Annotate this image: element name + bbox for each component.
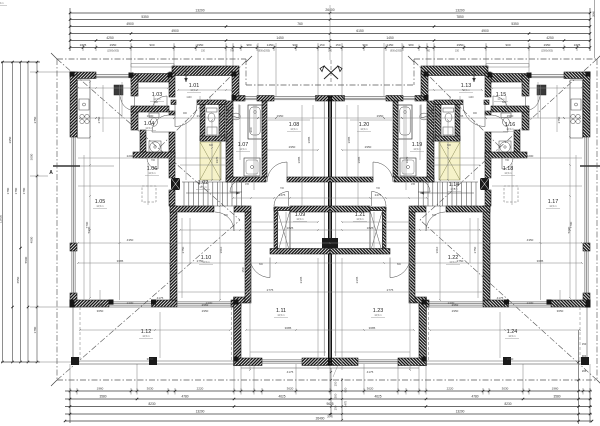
- svg-text:3030: 3030: [147, 387, 154, 391]
- bathtub 1.07: [248, 105, 262, 139]
- svg-text:3685: 3685: [297, 156, 301, 163]
- svg-text:1450: 1450: [387, 43, 394, 47]
- svg-text:150: 150: [582, 342, 587, 346]
- svg-text:900: 900: [183, 112, 188, 115]
- svg-text:1.14: 1.14: [449, 182, 460, 188]
- svg-text:1.23: 1.23: [373, 308, 384, 314]
- svg-text:3000: 3000: [30, 153, 34, 160]
- svg-text:2475: 2475: [375, 193, 382, 197]
- svg-text:980: 980: [408, 43, 413, 47]
- tall cabinet by window: [114, 85, 123, 95]
- svg-text:12,5 m: 12,5 m: [296, 218, 303, 221]
- svg-text:760: 760: [426, 50, 431, 53]
- svg-text:800: 800: [154, 101, 159, 104]
- svg-text:1.21: 1.21: [355, 212, 366, 218]
- svg-text:4250: 4250: [106, 36, 114, 40]
- svg-text:4625: 4625: [278, 395, 285, 399]
- bottom wall segments: [70, 300, 109, 307]
- svg-text:3685: 3685: [369, 326, 376, 330]
- svg-text:1960: 1960: [97, 387, 104, 391]
- svg-text:4780: 4780: [471, 395, 478, 399]
- wall 1.05/1.10: [170, 206, 177, 300]
- svg-text:2400: 2400: [127, 301, 134, 305]
- svg-text:12,5 m: 12,5 m: [145, 127, 152, 130]
- svg-text:1780: 1780: [6, 187, 10, 194]
- section marker A: [53, 165, 80, 167]
- svg-text:155: 155: [245, 183, 250, 186]
- svg-text:800: 800: [224, 214, 229, 217]
- svg-text:3650: 3650: [557, 309, 564, 313]
- mid front wall piers: [239, 96, 245, 102]
- svg-text:3685: 3685: [347, 136, 351, 143]
- outer wall: top entry segment: [172, 66, 239, 76]
- svg-text:2200: 2200: [527, 154, 534, 158]
- svg-text:150: 150: [201, 50, 206, 53]
- toilet 1.07: [228, 110, 232, 123]
- svg-text:3685: 3685: [117, 259, 124, 263]
- svg-text:12,5 m: 12,5 m: [96, 205, 103, 208]
- svg-text:1500: 1500: [147, 114, 154, 118]
- center bottom dim cluster: [330, 368, 332, 416]
- svg-text:300: 300: [334, 393, 338, 398]
- roof hip lines: [57, 59, 240, 220]
- svg-text:12,5 m: 12,5 m: [202, 261, 209, 264]
- wc2 room walls: [200, 105, 205, 142]
- svg-text:13200: 13200: [455, 9, 464, 13]
- svg-text:12,5 m: 12,5 m: [449, 261, 456, 264]
- svg-text:2775: 2775: [267, 288, 274, 292]
- svg-text:150: 150: [334, 381, 338, 386]
- svg-text:150: 150: [455, 50, 460, 53]
- svg-text:900: 900: [249, 127, 253, 132]
- svg-text:12,5 m: 12,5 m: [0, 2, 4, 5]
- svg-text:1.09: 1.09: [295, 212, 306, 218]
- svg-text:5350: 5350: [511, 22, 519, 26]
- wing bottom wall: [234, 358, 262, 366]
- svg-text:1.20: 1.20: [359, 122, 370, 128]
- svg-text:1475: 1475: [344, 400, 348, 407]
- svg-text:9625: 9625: [326, 402, 333, 406]
- svg-text:1.08: 1.08: [289, 122, 300, 128]
- svg-text:2950: 2950: [452, 309, 459, 313]
- svg-text:12,5 m: 12,5 m: [356, 218, 363, 221]
- svg-text:700: 700: [230, 107, 235, 110]
- wc left wall: [140, 130, 146, 158]
- svg-text:3620: 3620: [367, 387, 374, 391]
- svg-text:295: 295: [582, 369, 587, 373]
- svg-text:7700: 7700: [85, 221, 89, 228]
- svg-text:11830: 11830: [0, 215, 3, 223]
- svg-text:2950: 2950: [289, 145, 296, 149]
- washer: [149, 141, 161, 153]
- svg-text:1.18: 1.18: [503, 166, 514, 172]
- svg-text:700: 700: [376, 187, 381, 190]
- svg-text:1.02: 1.02: [198, 180, 209, 186]
- svg-text:800: 800: [259, 263, 264, 266]
- svg-text:3580: 3580: [553, 395, 560, 399]
- svg-text:4900: 4900: [126, 22, 134, 26]
- svg-text:1.15: 1.15: [496, 92, 507, 98]
- svg-text:12,5 m: 12,5 m: [549, 205, 556, 208]
- svg-text:1100: 1100: [468, 96, 474, 99]
- svg-text:2200: 2200: [127, 154, 134, 158]
- svg-text:A: A: [49, 170, 53, 176]
- outer wall: top-left segment: [70, 72, 96, 79]
- wall 1.01 / hall: [171, 100, 176, 105]
- svg-text:8230: 8230: [148, 402, 155, 406]
- svg-text:1.11: 1.11: [276, 308, 286, 314]
- wc2 fixtures: [207, 108, 218, 112]
- svg-text:2640: 2640: [327, 415, 333, 419]
- svg-text:1500: 1500: [507, 114, 514, 118]
- interior dim chains: [77, 81, 331, 371]
- svg-text:7700: 7700: [569, 221, 573, 228]
- shaft 1.09: [274, 207, 278, 253]
- terrace outline: [73, 307, 234, 364]
- svg-text:900: 900: [505, 43, 510, 47]
- svg-text:900: 900: [344, 387, 348, 392]
- svg-text:155: 155: [411, 183, 416, 186]
- svg-text:2950: 2950: [365, 145, 372, 149]
- svg-text:2475: 2475: [279, 193, 286, 197]
- svg-text:150: 150: [334, 405, 338, 410]
- wall below 1.07 and 1.08: [226, 177, 266, 182]
- svg-text:2750: 2750: [197, 259, 204, 263]
- svg-text:2950: 2950: [457, 43, 464, 47]
- shaft with skylight: [200, 142, 221, 180]
- svg-text:3580: 3580: [99, 395, 106, 399]
- mid front windows: [245, 96, 257, 98]
- svg-text:4900: 4900: [481, 29, 489, 33]
- svg-text:2220: 2220: [447, 387, 454, 391]
- svg-text:1780: 1780: [22, 187, 26, 194]
- svg-text:2750: 2750: [557, 116, 561, 123]
- svg-text:700: 700: [426, 107, 431, 110]
- svg-text:13200: 13200: [195, 9, 204, 13]
- svg-text:2365: 2365: [355, 276, 359, 283]
- svg-text:4350: 4350: [527, 238, 534, 242]
- stairs treads: [184, 182, 242, 206]
- svg-text:4900: 4900: [171, 29, 179, 33]
- svg-text:5500: 5500: [24, 256, 28, 263]
- svg-text:1970: 1970: [215, 156, 219, 163]
- svg-text:12,5 m: 12,5 m: [199, 186, 206, 189]
- svg-text:1625: 1625: [367, 226, 374, 230]
- bath 1.07 left wall: [226, 101, 233, 182]
- svg-text:1.04: 1.04: [144, 121, 155, 127]
- svg-text:2750: 2750: [33, 116, 37, 123]
- svg-text:600: 600: [209, 144, 214, 147]
- svg-text:2950: 2950: [110, 43, 117, 47]
- porch left wall: [131, 75, 138, 96]
- entry arrow: [185, 70, 187, 82]
- kitchen counter: [78, 80, 91, 138]
- svg-text:4780: 4780: [181, 395, 188, 399]
- bottom dimension lines: [65, 390, 592, 392]
- svg-text:1450: 1450: [276, 36, 284, 40]
- svg-text:3650: 3650: [147, 357, 154, 361]
- svg-text:980: 980: [246, 43, 251, 47]
- step wall: [232, 72, 239, 101]
- svg-text:2950: 2950: [8, 136, 12, 143]
- svg-text:12,5 m: 12,5 m: [290, 128, 297, 131]
- svg-text:3650: 3650: [97, 309, 104, 313]
- svg-text:700: 700: [505, 159, 510, 162]
- svg-text:4175: 4175: [367, 370, 374, 374]
- svg-text:1.13: 1.13: [461, 83, 472, 89]
- svg-text:12,5 m: 12,5 m: [374, 314, 381, 317]
- svg-text:4250: 4250: [546, 36, 554, 40]
- svg-text:1780: 1780: [14, 187, 18, 194]
- svg-text:7850: 7850: [456, 15, 464, 19]
- bottom wall windows: [109, 301, 152, 303]
- wc bottom wall: [133, 152, 175, 158]
- svg-text:2400: 2400: [527, 301, 534, 305]
- wc 1.04 fixtures: [149, 113, 159, 118]
- svg-text:1100: 1100: [186, 96, 192, 99]
- svg-text:300: 300: [328, 50, 333, 53]
- svg-text:8230: 8230: [504, 402, 511, 406]
- svg-text:12,5 m: 12,5 m: [506, 128, 513, 131]
- svg-text:4175: 4175: [287, 370, 294, 374]
- svg-text:2365: 2365: [457, 114, 464, 118]
- svg-text:4625: 4625: [374, 395, 381, 399]
- svg-text:2950: 2950: [202, 309, 209, 313]
- svg-text:1.03: 1.03: [152, 92, 163, 98]
- wall below corridor: [170, 206, 214, 212]
- svg-text:12,5 m: 12,5 m: [148, 172, 155, 175]
- wall 1.10 right / 1.11 left: [245, 212, 251, 303]
- svg-text:600: 600: [447, 144, 452, 147]
- svg-text:1.24: 1.24: [507, 329, 518, 335]
- svg-text:(900x2050): (900x2050): [258, 50, 270, 53]
- svg-text:(1500x500): (1500x500): [541, 50, 553, 53]
- svg-text:800: 800: [397, 263, 402, 266]
- svg-text:13200: 13200: [196, 410, 205, 414]
- window top wall: [96, 74, 131, 76]
- svg-text:2950: 2950: [277, 114, 284, 118]
- svg-text:5350: 5350: [141, 15, 149, 19]
- left dimension lines: [2, 62, 4, 362]
- svg-text:6150: 6150: [356, 29, 364, 33]
- svg-text:1625: 1625: [287, 226, 294, 230]
- svg-text:2950: 2950: [544, 43, 551, 47]
- svg-text:(1500x500): (1500x500): [107, 50, 119, 53]
- wall above 1.11: [270, 249, 330, 255]
- wing left wall: [234, 297, 246, 303]
- svg-text:12,5 m: 12,5 m: [413, 148, 420, 151]
- svg-text:2365: 2365: [197, 114, 204, 118]
- svg-text:12,5 m: 12,5 m: [504, 172, 511, 175]
- svg-text:1.16: 1.16: [505, 122, 516, 128]
- svg-text:900: 900: [149, 43, 154, 47]
- svg-text:150: 150: [241, 267, 245, 272]
- right dimension chain: [578, 330, 580, 424]
- svg-text:12,5 m: 12,5 m: [239, 148, 246, 151]
- chimney: [171, 178, 180, 190]
- svg-text:150: 150: [319, 43, 324, 47]
- svg-text:12,5 m: 12,5 m: [462, 89, 469, 92]
- svg-text:4350: 4350: [127, 238, 134, 242]
- sink 1.07: [227, 133, 232, 142]
- svg-text:4175: 4175: [497, 296, 504, 300]
- svg-text:1.05: 1.05: [95, 199, 106, 205]
- svg-text:3650: 3650: [507, 357, 514, 361]
- porch-living door: [121, 97, 135, 111]
- svg-text:3650: 3650: [97, 303, 104, 307]
- svg-text:1.12: 1.12: [141, 329, 152, 335]
- svg-text:4000: 4000: [30, 236, 34, 243]
- svg-text:1780: 1780: [33, 326, 37, 333]
- shower 1.07: [244, 158, 260, 176]
- svg-text:1.17: 1.17: [548, 199, 559, 205]
- svg-text:1450: 1450: [267, 43, 274, 47]
- svg-text:3620: 3620: [287, 387, 294, 391]
- svg-text:2640: 2640: [592, 11, 596, 17]
- svg-text:700: 700: [151, 159, 156, 162]
- svg-text:3685: 3685: [285, 326, 292, 330]
- door arcs: [152, 96, 167, 111]
- svg-text:12,5 m: 12,5 m: [360, 128, 367, 131]
- svg-text:1.06: 1.06: [147, 166, 158, 172]
- svg-text:1.19: 1.19: [412, 142, 423, 148]
- porch front wall: [131, 74, 172, 83]
- svg-text:6550: 6550: [16, 276, 20, 283]
- svg-text:3610: 3610: [435, 246, 439, 253]
- svg-text:3650: 3650: [557, 303, 564, 307]
- svg-text:900: 900: [473, 112, 478, 115]
- interior divider wall living/hall: [169, 72, 175, 97]
- svg-text:1970: 1970: [405, 156, 409, 163]
- junction squares: [70, 72, 75, 77]
- svg-text:3685: 3685: [357, 156, 361, 163]
- party wall: [328, 96, 330, 366]
- svg-text:26400: 26400: [316, 417, 325, 421]
- svg-text:2750: 2750: [181, 246, 185, 253]
- top dimension lines: [70, 12, 590, 14]
- svg-text:12,5 m: 12,5 m: [190, 89, 197, 92]
- attic ladder dashed rect: [142, 186, 156, 202]
- svg-text:760: 760: [297, 22, 303, 26]
- svg-text:12,5 m: 12,5 m: [277, 314, 284, 317]
- svg-text:2950: 2950: [377, 114, 384, 118]
- svg-text:(900x2050): (900x2050): [390, 50, 402, 53]
- svg-text:1960: 1960: [552, 387, 559, 391]
- svg-text:800: 800: [432, 214, 437, 217]
- svg-text:12,5 m: 12,5 m: [508, 335, 515, 338]
- porch back wall / wc top: [131, 106, 169, 112]
- svg-text:2750: 2750: [473, 246, 477, 253]
- svg-text:12,5 m: 12,5 m: [450, 188, 457, 191]
- svg-text:3610: 3610: [219, 246, 223, 253]
- svg-text:1450: 1450: [386, 36, 394, 40]
- svg-text:760: 760: [230, 50, 235, 53]
- svg-text:700: 700: [280, 187, 285, 190]
- svg-text:2750: 2750: [457, 259, 464, 263]
- left outer wall segments: [70, 72, 77, 137]
- svg-text:150: 150: [335, 43, 340, 47]
- svg-text:13200: 13200: [456, 410, 465, 414]
- svg-text:2220: 2220: [197, 387, 204, 391]
- svg-text:2400: 2400: [448, 301, 455, 305]
- svg-text:3685: 3685: [307, 136, 311, 143]
- crossed hammers symbol: [320, 60, 342, 82]
- porch canopy: [131, 63, 174, 65]
- svg-text:3685: 3685: [537, 259, 544, 263]
- svg-text:2775: 2775: [387, 288, 394, 292]
- left wall windows: [71, 137, 73, 243]
- svg-text:1.01: 1.01: [189, 83, 200, 89]
- svg-text:800: 800: [502, 101, 507, 104]
- bath 1.07 right wall: [262, 101, 267, 177]
- roof outline dash-dot: [57, 58, 246, 60]
- svg-text:2400: 2400: [206, 301, 213, 305]
- svg-text:2750: 2750: [97, 116, 101, 123]
- svg-text:4175: 4175: [157, 296, 164, 300]
- svg-text:3030: 3030: [502, 387, 509, 391]
- svg-text:1.07: 1.07: [238, 142, 249, 148]
- svg-text:2950: 2950: [197, 43, 204, 47]
- svg-text:2365: 2365: [299, 276, 303, 283]
- svg-text:12,5 m: 12,5 m: [142, 335, 149, 338]
